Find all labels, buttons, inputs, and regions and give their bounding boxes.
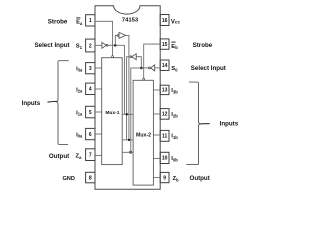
IC body U1 74153 outline with notch <box>95 6 160 190</box>
node S1bar junction dot <box>114 44 117 47</box>
wire select tap 1 <box>122 113 133 115</box>
svg-text:I0b: I0b <box>171 156 178 162</box>
wire pin1 Ea enable to Mux-1 <box>95 21 113 55</box>
pin 2 box <box>86 39 95 52</box>
wire inputs pointer right <box>200 123 210 125</box>
pin 15 box <box>160 39 169 49</box>
junction dot tap 1 <box>126 113 128 115</box>
wire pin2 S1 to inverter G1 <box>95 44 102 46</box>
wire pin6 I0a to Mux-1 <box>95 133 102 135</box>
brace left inputs <box>57 61 69 145</box>
pin 13 box <box>160 85 169 94</box>
wire pin15 Eb enable to Mux-2 <box>144 44 161 78</box>
enable bubble Mux-2 <box>143 78 145 80</box>
svg-text:10: 10 <box>162 156 168 162</box>
pin 12 box <box>160 109 169 120</box>
wire G3 output to node S0bar <box>141 67 148 69</box>
node ring tap 3 <box>130 151 132 153</box>
label Ea <box>76 18 83 26</box>
pin 10 box <box>160 152 169 163</box>
svg-text:I1b: I1b <box>171 134 178 140</box>
wire pin11 I1b to Mux-2 <box>153 134 160 136</box>
wire pin10 I0b to Mux-2 <box>153 157 160 159</box>
svg-text:2: 2 <box>89 43 92 49</box>
pin 11 box <box>160 130 169 141</box>
svg-text:I2b: I2b <box>171 112 178 118</box>
mux box Mux-2 <box>133 80 153 185</box>
svg-text:16: 16 <box>162 18 168 24</box>
svg-text:S1: S1 <box>76 44 83 50</box>
svg-text:Select Input: Select Input <box>35 42 70 49</box>
svg-text:I3a: I3a <box>76 66 83 72</box>
svg-text:3: 3 <box>89 66 92 72</box>
wire select tap 2 <box>122 139 133 141</box>
pin 9 box <box>160 172 169 182</box>
inverter G3 <box>149 65 155 71</box>
pin 4 box <box>86 83 95 94</box>
svg-text:I0a: I0a <box>76 132 83 138</box>
buffer G2 with input bubble <box>117 32 126 38</box>
svg-text:4: 4 <box>89 87 92 93</box>
pin 5 box <box>86 106 95 118</box>
svg-text:Eb: Eb <box>171 44 178 50</box>
svg-text:GND: GND <box>62 176 74 182</box>
svg-text:11: 11 <box>162 134 168 140</box>
wire pin12 I2b to Mux-2 <box>153 113 160 115</box>
wire pin9 Zb output from Mux-2 <box>153 177 160 179</box>
svg-text:Zb: Zb <box>173 176 180 182</box>
svg-text:5: 5 <box>89 110 92 116</box>
wire G4 output S0 line down <box>127 57 131 140</box>
svg-text:Output: Output <box>190 175 210 182</box>
brace right inputs <box>186 82 199 165</box>
svg-text:1: 1 <box>89 18 92 24</box>
wire pin13 I3b to Mux-2 <box>153 89 160 91</box>
pin 14 box <box>160 60 169 71</box>
wire G1 output to node S1bar <box>108 44 115 46</box>
wire node S0bar up to G4 input <box>136 57 141 68</box>
svg-text:Select Input: Select Input <box>191 65 226 72</box>
node S0bar junction dot <box>140 67 143 70</box>
svg-text:12: 12 <box>162 112 168 118</box>
svg-text:8: 8 <box>89 175 92 181</box>
enable bubble Mux-1 <box>112 56 114 58</box>
wire S0bar line down <box>131 68 142 152</box>
wire pin14 S0 to inverter G3 <box>155 67 161 69</box>
svg-text:Strobe: Strobe <box>48 19 68 26</box>
svg-text:I1a: I1a <box>76 110 83 116</box>
pin 7 box <box>86 149 95 161</box>
svg-text:S0: S0 <box>171 66 178 72</box>
svg-text:Strobe: Strobe <box>193 42 213 49</box>
svg-text:Mux-2: Mux-2 <box>136 132 151 138</box>
pin 8 box <box>86 172 95 183</box>
svg-text:15: 15 <box>162 42 168 48</box>
wire select tap 3 <box>122 151 133 153</box>
pin 6 box <box>86 128 95 139</box>
inverter G4 <box>130 54 136 60</box>
wire inputs pointer left <box>48 100 57 103</box>
svg-text:74153: 74153 <box>122 18 139 24</box>
wire pin5 I1a to Mux-1 <box>95 111 102 113</box>
svg-text:Vcc: Vcc <box>171 20 181 26</box>
svg-text:I3b: I3b <box>171 88 178 94</box>
svg-text:I2a: I2a <box>76 87 83 93</box>
svg-text:6: 6 <box>89 132 92 138</box>
junction dot tap 2 <box>128 139 130 141</box>
wire node S1bar up to G2 input <box>115 35 117 45</box>
wire pin7 Za output from Mux-1 <box>95 154 102 156</box>
svg-text:Mux-1: Mux-1 <box>105 110 119 116</box>
svg-text:Za: Za <box>76 154 83 160</box>
wire pin3 I3a to Mux-1 <box>95 67 102 69</box>
inverter G1 <box>102 42 108 48</box>
svg-text:13: 13 <box>162 88 168 94</box>
svg-text:Inputs: Inputs <box>22 100 41 107</box>
wire G2 output S1 line down <box>126 35 129 139</box>
wire pin4 I2a to Mux-1 <box>95 88 102 90</box>
wire S1bar line down <box>115 45 124 114</box>
svg-text:9: 9 <box>163 175 166 181</box>
label Eb <box>171 42 178 50</box>
svg-text:Ea: Ea <box>76 20 83 26</box>
pin 1 box <box>86 15 95 26</box>
pin 3 box <box>86 63 95 74</box>
svg-text:14: 14 <box>162 63 168 69</box>
pin 16 box <box>160 15 169 26</box>
svg-text:Output: Output <box>49 153 69 160</box>
svg-text:7: 7 <box>89 153 92 159</box>
mux box Mux-1 <box>102 58 123 165</box>
svg-text:Inputs: Inputs <box>220 121 239 128</box>
